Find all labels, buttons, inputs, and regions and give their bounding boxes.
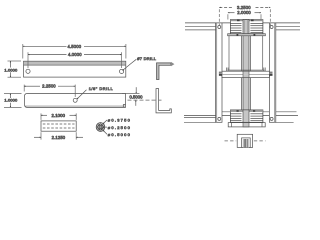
bolt right (269, 72, 272, 76)
bend line (24, 64, 126, 66)
bolt left (219, 72, 222, 76)
lead screw column (242, 20, 251, 127)
svg-text:2.0000: 2.0000 (237, 10, 251, 15)
top rail line2 left (185, 25, 216, 27)
svg-text:⌀0.5000: ⌀0.5000 (108, 132, 131, 137)
svg-text:1.0000: 1.0000 (4, 67, 18, 72)
dim 2.1000 (41, 114, 47, 116)
flange edge line (25, 105, 126, 107)
svg-text:⌀0.2500: ⌀0.2500 (108, 125, 131, 130)
assembly view (right) (184, 5, 300, 148)
hole left top (218, 26, 221, 29)
leader #7 drill (123, 59, 137, 70)
svg-text:0.5000: 0.5000 (130, 94, 144, 99)
hidden line 1 (43, 123, 75, 125)
clip right (264, 68, 265, 72)
leader 0.5000 (103, 130, 107, 134)
dim 2.1250 (34, 136, 41, 138)
dim 1.0000 (front) extension lines (4, 93, 22, 95)
guide rod left (228, 36, 230, 70)
dim 0.5000 arrows (135, 87, 137, 93)
bottom rail line1 (216, 111, 297, 113)
end step (123, 105, 125, 108)
angle profile symbol 2 (156, 89, 171, 113)
bottom rail bottom edge left (184, 121, 216, 123)
svg-text:2.1250: 2.1250 (52, 135, 66, 140)
angle profile symbol 1 (157, 62, 175, 80)
dim 4.5000 (23, 45, 67, 47)
hidden line 2 (43, 127, 75, 129)
dim 1.0000 (top view height) extension lines (8, 60, 22, 62)
dim 4.0000 extension lines (27, 52, 29, 68)
leader 0.3750 (103, 120, 107, 124)
flange bar under top block (228, 34, 266, 36)
dim 2.1000 extension lines (40, 113, 42, 120)
svg-text:2.2500: 2.2500 (42, 84, 56, 89)
knurl hatch (97, 123, 104, 131)
clip left (227, 68, 229, 72)
hole left bottom (218, 117, 221, 120)
dim 1.0000 vertical (9, 61, 11, 68)
svg-text:1.0000: 1.0000 (4, 98, 18, 103)
hole left (26, 69, 30, 73)
bushing detail circles (96, 117, 130, 137)
top rail line3 right (276, 29, 300, 31)
bar outline (24, 61, 126, 77)
dim 4.0000 (28, 54, 67, 56)
dim 2.0000 (228, 12, 235, 14)
centerline dashes (225, 140, 237, 142)
top rail top edge (185, 22, 300, 24)
dim 2.2500 (24, 85, 40, 87)
dim 2.1250 extension lines (40, 132, 42, 139)
hole right (120, 69, 124, 73)
dim 2.0000 extension lines (227, 14, 229, 19)
svg-text:1/8" DRILL: 1/8" DRILL (89, 86, 114, 91)
dim 3.2500 (219, 6, 233, 8)
left plate (216, 23, 222, 122)
hole right bottom (270, 117, 273, 120)
bottom rail line3 left (184, 117, 216, 119)
bar outline (25, 94, 126, 108)
front view: bar with center hole (4, 84, 162, 108)
hole 1/8 (73, 98, 77, 102)
dim 2.2500 extension lines (23, 85, 25, 92)
svg-text:4.5000: 4.5000 (68, 44, 82, 49)
svg-text:2.1000: 2.1000 (51, 113, 65, 118)
svg-text:4.0000: 4.0000 (68, 52, 82, 57)
hole right top (270, 26, 273, 29)
centerline dashed (128, 99, 162, 101)
section detail square (225, 134, 266, 147)
dim 4.5000 extension lines (22, 44, 24, 59)
bottom rail main (184, 114, 298, 116)
leader 0.2500 (103, 126, 107, 128)
bottom rail bottom edge right (276, 121, 294, 123)
top rail line3 left (185, 29, 216, 31)
bend band (24, 62, 126, 65)
svg-text:⌀0.3750: ⌀0.3750 (108, 117, 131, 122)
right plate (269, 23, 275, 122)
end view outline (41, 121, 76, 131)
dim 0.5000 extension line (122, 92, 140, 94)
dim 1.0000 vertical front (9, 94, 11, 99)
guide rod right (262, 36, 264, 70)
dim 3.2500 extension lines (218, 9, 220, 25)
top view: angle bar (plan) (4, 44, 156, 77)
base plate under bottom block (228, 123, 265, 127)
top rail line2 right (276, 25, 300, 27)
svg-text:#7 DRILL: #7 DRILL (137, 56, 157, 61)
leader 1/8 drill (77, 90, 87, 99)
end view (bottom-left) (34, 113, 83, 140)
bottom carriage block (230, 110, 263, 122)
top carriage block (230, 20, 263, 34)
slide crossbar (219, 68, 273, 78)
